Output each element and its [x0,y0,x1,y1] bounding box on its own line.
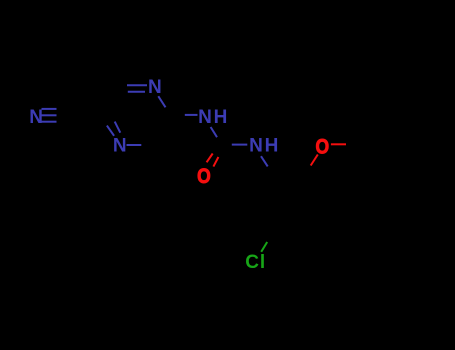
urea NH2 label [249,136,280,157]
bond pyrazine C2 to NH1 carbon half (black, invisible) [171,114,197,117]
pyrazine top N label [148,77,162,98]
pyrazine ring carbon bonds (black on black, invisible) [102,86,171,145]
bond carbonyl C to NH2 (blue half) [232,144,248,146]
svg-text:NH: NH [249,136,280,157]
bond Cl to benzene C5 (green half) [261,242,267,252]
pyrazine bottom-left double bond halves (blue) [107,122,120,136]
pyrazine top double bond halves (blue) [127,85,147,92]
nitrile triple bond (blue half) [42,109,57,122]
nitrile N label [29,107,43,128]
svg-text:N: N [148,77,162,98]
svg-text:NH: NH [198,107,229,128]
Cl label [245,252,266,273]
bond pyrazine C3 to nitrile C (black, invisible) [69,114,102,116]
bond ether O to chain C (red half) [331,143,346,145]
pyrazine N4-C3 bond half (blue) [127,144,142,146]
bond NH2 to benzene C1 (blue half) [261,156,268,166]
svg-text:N: N [29,107,43,128]
pyrazine N1-C2 bond half (blue) [158,96,165,107]
urea NH1 label [198,107,229,128]
pyrazine bottom N label [113,135,127,156]
bond NH1 to carbonyl C (blue half) [211,127,217,137]
urea O label [197,165,211,189]
urea carbonyl C bonds carbon halves (black, invisible) [210,124,247,167]
svg-text:O: O [197,165,211,189]
bond ring C2 to urea NH1 (blue half) [185,114,198,116]
bond benzene C5 to Cl carbon half (black, invisible) [263,233,273,249]
bond ether O to benzene C2 (red half) [311,155,318,166]
benzene ring carbon bonds (black on black, invisible) [256,153,324,233]
svg-text:N: N [113,135,127,156]
carbonyl C=O double bond halves (red) [207,154,219,167]
svg-text:Cl: Cl [245,252,266,273]
benzyloxy chain carbon bonds (black, invisible) [307,145,408,174]
ether O label [315,135,329,159]
